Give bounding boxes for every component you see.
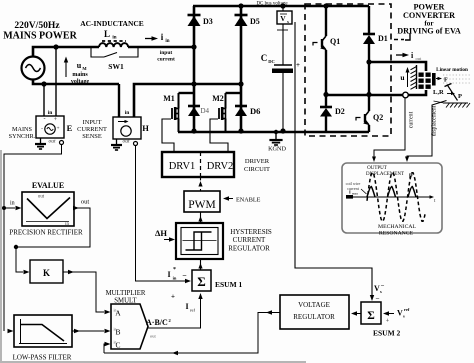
svg-text:ESUM 1: ESUM 1	[215, 280, 243, 289]
svg-text:in: in	[114, 309, 117, 313]
svg-text:+: +	[296, 61, 300, 69]
svg-text:EVALUE: EVALUE	[32, 181, 64, 190]
svg-text:D4: D4	[201, 107, 210, 115]
svg-text:KGND: KGND	[268, 146, 286, 153]
svg-text:MAINS POWER: MAINS POWER	[3, 31, 77, 42]
svg-text:I: I	[167, 270, 170, 279]
svg-text:REGULATOR: REGULATOR	[293, 313, 335, 321]
svg-text:ENABLE: ENABLE	[236, 197, 261, 204]
svg-text:L: L	[104, 29, 110, 39]
svg-text:F: F	[444, 78, 448, 84]
svg-text:Σ: Σ	[367, 310, 375, 322]
svg-text:DISPLACEMENT: DISPLACEMENT	[366, 172, 404, 177]
svg-text:u: u	[400, 73, 404, 82]
svg-text:mains: mains	[72, 72, 88, 78]
svg-text:out: out	[416, 56, 423, 61]
svg-text:Q1: Q1	[330, 37, 340, 46]
svg-text:input: input	[160, 50, 173, 56]
svg-text:L,R: L,R	[433, 89, 444, 96]
svg-text:DRV1: DRV1	[169, 161, 196, 172]
svg-text:current: current	[409, 111, 415, 128]
svg-text:DRIVING of EVA: DRIVING of EVA	[397, 27, 461, 36]
svg-text:DRIVER: DRIVER	[245, 158, 270, 165]
svg-text:PWM: PWM	[188, 199, 215, 211]
svg-text:-: -	[44, 117, 46, 123]
svg-text:H: H	[142, 123, 149, 133]
svg-text:P: P	[458, 93, 462, 100]
svg-text:out: out	[48, 139, 56, 145]
svg-text:REGULATOR: REGULATOR	[228, 245, 270, 253]
svg-text:INPUT: INPUT	[83, 119, 102, 126]
svg-text:OUTPUT: OUTPUT	[367, 166, 387, 171]
svg-text:CIRCUIT: CIRCUIT	[244, 166, 270, 173]
svg-text:SMULT: SMULT	[114, 298, 137, 305]
svg-text:SYNCHR.: SYNCHR.	[9, 133, 36, 140]
svg-text:A·B/C: A·B/C	[146, 318, 168, 327]
svg-text:-: -	[41, 126, 43, 132]
svg-text:ref: ref	[404, 307, 410, 312]
svg-text:+: +	[386, 318, 390, 325]
svg-text:–: –	[182, 271, 187, 279]
svg-text:V: V	[280, 14, 286, 23]
svg-text:Q2: Q2	[373, 113, 383, 122]
svg-text:current: current	[157, 57, 175, 63]
svg-text:in: in	[114, 328, 117, 332]
svg-text:MAINS: MAINS	[12, 126, 32, 133]
svg-text:E: E	[67, 123, 73, 133]
svg-text:Σ: Σ	[197, 274, 206, 289]
svg-text:in: in	[125, 110, 130, 116]
svg-text:out: out	[122, 139, 130, 145]
svg-text:M2: M2	[212, 94, 224, 103]
svg-text:SW1: SW1	[108, 62, 124, 71]
svg-text:out: out	[81, 199, 90, 206]
svg-text:out: out	[38, 195, 45, 200]
svg-text:out: out	[150, 334, 157, 339]
svg-text:in: in	[173, 276, 177, 281]
svg-text:K: K	[43, 268, 50, 278]
svg-text:MECHANICAL: MECHANICAL	[378, 224, 416, 230]
svg-text:220V/50Hz: 220V/50Hz	[14, 20, 60, 31]
svg-text:u: u	[77, 61, 82, 70]
svg-text:s: s	[287, 19, 289, 24]
svg-text:in: in	[10, 201, 15, 207]
svg-text:HYSTERESIS: HYSTERESIS	[230, 228, 272, 236]
svg-text:MULTIPLIER: MULTIPLIER	[106, 290, 146, 297]
svg-text:voltage: voltage	[71, 79, 90, 85]
svg-text:AC-INDUCTANCE: AC-INDUCTANCE	[80, 19, 144, 28]
svg-text:PRECISION RECTIFIER: PRECISION RECTIFIER	[9, 229, 83, 237]
svg-text:CURRENT: CURRENT	[77, 126, 107, 133]
svg-text:M1: M1	[163, 94, 175, 103]
svg-text:SENSE: SENSE	[82, 133, 102, 140]
svg-text:D6: D6	[250, 106, 260, 116]
svg-text:VOLTAGE: VOLTAGE	[298, 301, 330, 309]
svg-text:ΔH: ΔH	[155, 228, 167, 238]
svg-text:ref: ref	[190, 308, 195, 313]
svg-text:*: *	[173, 267, 176, 273]
svg-text:DC: DC	[268, 59, 275, 64]
svg-text:CURRENT: CURRENT	[233, 236, 266, 244]
svg-text:Linear motion: Linear motion	[436, 67, 468, 73]
svg-text:D2: D2	[335, 107, 345, 116]
svg-text:+: +	[171, 293, 175, 301]
svg-text:D3: D3	[203, 17, 213, 26]
svg-text:in: in	[48, 110, 53, 116]
svg-text:I: I	[185, 302, 188, 311]
svg-text:RESONANCE: RESONANCE	[379, 231, 414, 237]
svg-text:D1: D1	[378, 34, 388, 43]
svg-text:DRV2: DRV2	[207, 161, 234, 172]
svg-text:s: s	[403, 314, 405, 319]
svg-text:DC bus voltage: DC bus voltage	[256, 2, 288, 7]
svg-text:s: s	[380, 289, 382, 294]
svg-text:C: C	[261, 53, 268, 63]
svg-text:+: +	[56, 126, 59, 132]
svg-text:displacement: displacement	[432, 105, 438, 136]
svg-text:in: in	[112, 36, 116, 41]
svg-text:I: I	[349, 190, 351, 195]
svg-text:LOW-PASS FILTER: LOW-PASS FILTER	[13, 354, 72, 362]
svg-text:max: max	[352, 192, 358, 196]
svg-text:p: p	[409, 172, 413, 179]
svg-text:in: in	[165, 39, 169, 44]
svg-text:in: in	[65, 222, 69, 227]
svg-text:ESUM 2: ESUM 2	[373, 329, 401, 338]
svg-text:in: in	[114, 341, 117, 345]
svg-text:D5: D5	[250, 17, 260, 26]
